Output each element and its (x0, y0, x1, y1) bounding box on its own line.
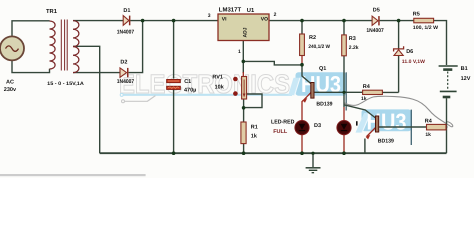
svg-text:D5: D5 (373, 7, 380, 13)
svg-text:1: 1 (238, 49, 241, 55)
svg-text:Q1: Q1 (319, 66, 326, 72)
svg-text:R4: R4 (363, 84, 371, 90)
svg-text:C1: C1 (184, 79, 191, 85)
svg-text:3: 3 (208, 13, 211, 19)
svg-text:2.2k: 2.2k (349, 45, 359, 51)
svg-text:R2: R2 (309, 35, 316, 41)
svg-text:D6: D6 (406, 49, 413, 55)
svg-text:230v: 230v (4, 87, 17, 93)
svg-text:15 - 0 - 15V,1A: 15 - 0 - 15V,1A (47, 81, 84, 87)
svg-text:1k: 1k (425, 132, 431, 138)
svg-text:2: 2 (274, 12, 277, 18)
svg-text:R5: R5 (413, 12, 420, 18)
svg-text:AC: AC (6, 79, 14, 85)
svg-text:R4: R4 (425, 119, 433, 125)
svg-text:D2: D2 (120, 59, 127, 65)
svg-text:D1: D1 (123, 8, 130, 14)
svg-text:R3: R3 (349, 36, 356, 42)
svg-text:VI: VI (222, 16, 227, 22)
svg-text:470µ: 470µ (184, 87, 196, 93)
svg-text:240,1/2 W: 240,1/2 W (308, 44, 330, 50)
svg-text:B1: B1 (461, 66, 468, 72)
svg-text:12V: 12V (461, 76, 471, 82)
svg-text:10k: 10k (215, 84, 225, 90)
svg-text:U1: U1 (247, 8, 255, 14)
svg-text:BD139: BD139 (378, 138, 394, 144)
svg-text:1N4007: 1N4007 (117, 79, 134, 85)
svg-text:11.0 V,1W: 11.0 V,1W (402, 59, 425, 65)
svg-text:LED-RED: LED-RED (271, 119, 294, 125)
svg-text:100, 1/2 W: 100, 1/2 W (413, 25, 438, 31)
svg-text:VO: VO (261, 16, 268, 22)
svg-text:LM317T: LM317T (219, 6, 242, 13)
svg-text:ADJ: ADJ (243, 27, 249, 37)
svg-text:1k: 1k (251, 133, 258, 139)
svg-text:HU3: HU3 (301, 71, 341, 97)
svg-text:RV1: RV1 (212, 74, 223, 80)
svg-text:1N4007: 1N4007 (117, 29, 134, 35)
svg-text:BD139: BD139 (316, 101, 332, 107)
svg-text:FULL: FULL (273, 129, 288, 135)
svg-text:TR1: TR1 (46, 9, 58, 15)
svg-text:R1: R1 (251, 124, 258, 130)
svg-text:1N4007: 1N4007 (366, 28, 383, 34)
svg-text:D3: D3 (314, 123, 321, 129)
svg-text:1k: 1k (361, 96, 367, 102)
